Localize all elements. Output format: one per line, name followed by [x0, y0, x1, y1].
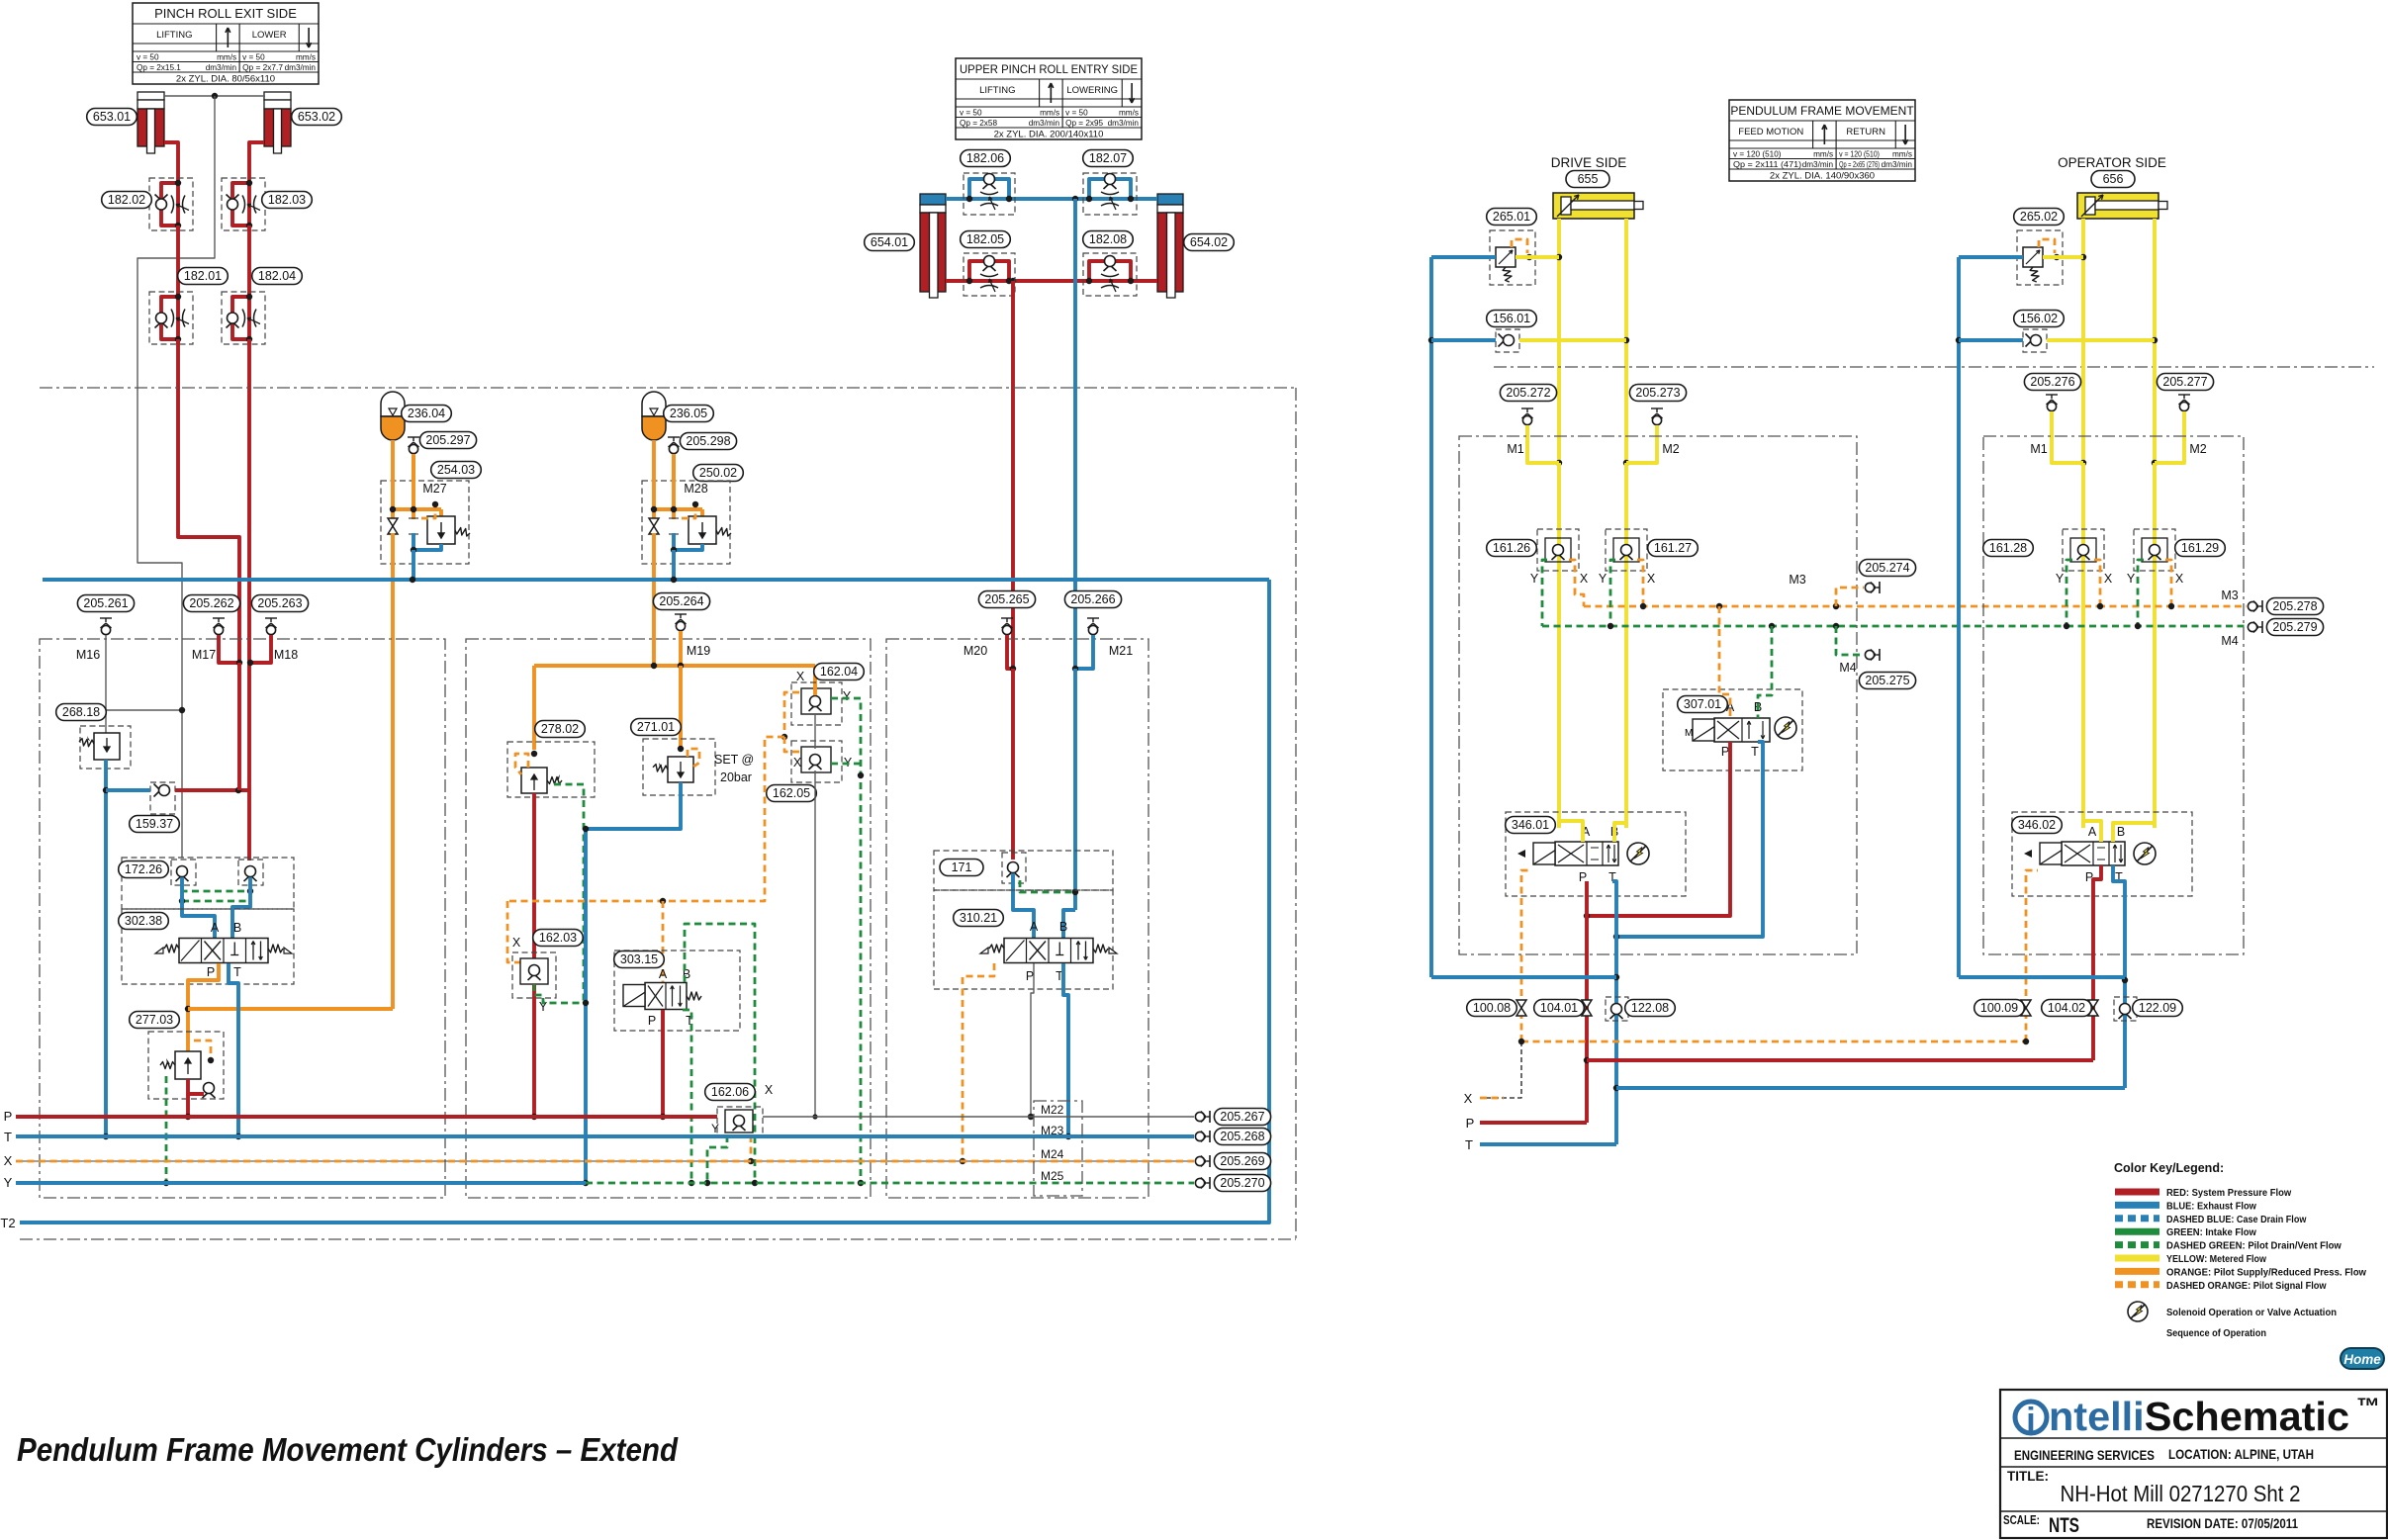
label 159.37: [130, 816, 180, 833]
wire yellow drive left port: [1557, 219, 1561, 463]
test point 205.262: [213, 618, 225, 635]
wire green B 303.15: [685, 924, 755, 1183]
wire yellow drive right port 2: [1624, 340, 1628, 463]
label 162.06: [705, 1084, 756, 1101]
wire yellow B 346.01: [1614, 823, 1626, 842]
svg-text:v = 50: v = 50: [137, 52, 159, 61]
wire red M17 test to line: [219, 635, 239, 663]
test point 205.273: [1626, 408, 1663, 463]
svg-text:dm3/min: dm3/min: [1802, 160, 1834, 169]
label 205.273: [1629, 385, 1686, 402]
shutoff 104.02: [2088, 1000, 2098, 1016]
wire yellow drive right port: [1624, 219, 1628, 340]
table PENDULUM FRAME MOVEMENT: [1729, 100, 1915, 182]
svg-text:P: P: [207, 965, 215, 979]
wire thin gray from junction down-left: [138, 96, 215, 858]
svg-text:205.270: 205.270: [1220, 1176, 1264, 1190]
wire blue into 265.02: [1959, 255, 2023, 259]
svg-text:LIFTING: LIFTING: [979, 85, 1015, 96]
wire yellow op right port: [2153, 219, 2157, 463]
wire orange pilot X chain: [507, 692, 799, 982]
valve 182.03 flow control: [222, 178, 265, 230]
label 205.264: [653, 593, 709, 610]
wire green Y collector drive: [1542, 560, 2067, 629]
wire green pilot Y 162.04/05: [831, 698, 864, 1186]
label 162.03: [533, 930, 584, 947]
svg-text:205.276: 205.276: [2030, 375, 2074, 389]
svg-text:303.15: 303.15: [620, 952, 658, 966]
svg-text:M4: M4: [1839, 661, 1856, 675]
label 271.01: [631, 719, 682, 736]
wire yellow out 265.02: [2043, 255, 2083, 259]
shutoff 100.08: [1516, 1000, 1526, 1016]
wire orange M27 accumulator line down: [391, 564, 395, 1009]
manifold block M28: [642, 440, 731, 580]
wire orange P 302.38: [188, 963, 219, 1051]
svg-text:YELLOW: Metered Flow: YELLOW: Metered Flow: [2166, 1253, 2267, 1265]
label 104.01: [1534, 1000, 1585, 1017]
label 310.21: [954, 910, 1004, 927]
svg-text:RED: System Pressure Flow: RED: System Pressure Flow: [2166, 1187, 2292, 1199]
svg-text:205.267: 205.267: [1220, 1110, 1264, 1124]
wire yellow B 346.02: [2113, 823, 2155, 842]
svg-text:20bar: 20bar: [720, 770, 752, 784]
wire gray M22 line: [763, 1116, 1194, 1118]
label 161.29: [2175, 540, 2226, 557]
test point 205.276: [2046, 395, 2083, 463]
svg-text:B: B: [2117, 825, 2125, 839]
wire red P 303.15: [661, 1010, 665, 1117]
svg-text:v = 50: v = 50: [960, 108, 982, 117]
label 182.04: [252, 268, 303, 285]
label 307.01: [1678, 696, 1728, 713]
valve 161.29 pilot check: [2134, 529, 2175, 571]
test point 205.270: [1195, 1177, 1210, 1189]
svg-text:268.18: 268.18: [62, 705, 100, 719]
label 161.27: [1648, 540, 1699, 557]
wire yellow A 346.01: [1559, 821, 1583, 842]
svg-text:UPPER PINCH ROLL ENTRY SIDE: UPPER PINCH ROLL ENTRY SIDE: [960, 62, 1138, 76]
label 303.15: [614, 951, 665, 968]
svg-text:A: A: [659, 967, 668, 981]
wire red left branch into manifold: [237, 663, 241, 790]
valve 162.05 pilot check: [791, 741, 842, 782]
cylinder 653.02: [264, 92, 291, 153]
svg-text:205.298: 205.298: [686, 434, 730, 448]
wire Y bus blue: [16, 1181, 586, 1185]
label 182.08: [1083, 231, 1134, 248]
svg-text:mm/s: mm/s: [1813, 149, 1833, 158]
valve 162.04 pilot check: [791, 682, 842, 725]
label 171: [940, 860, 983, 876]
svg-text:M20: M20: [964, 644, 987, 658]
svg-text:FEED MOTION: FEED MOTION: [1738, 127, 1803, 137]
svg-text:M1: M1: [2030, 442, 2047, 456]
test point 205.265: [1001, 618, 1013, 635]
svg-text:P: P: [4, 1109, 13, 1124]
wire yellow drive A down: [1557, 463, 1561, 828]
svg-text:A: A: [2088, 825, 2097, 839]
svg-text:ENGINEERING SERVICES: ENGINEERING SERVICES: [2014, 1447, 2155, 1463]
svg-text:v = 120 (510): v = 120 (510): [1839, 149, 1880, 158]
svg-text:172.26: 172.26: [125, 862, 162, 876]
svg-text:M25: M25: [1041, 1169, 1064, 1183]
svg-text:X: X: [512, 936, 521, 950]
valve 265.01 reducing: [1490, 230, 1535, 285]
svg-text:M3: M3: [2221, 589, 2238, 602]
wire gray jog 268.18: [106, 709, 182, 711]
svg-text:NH-Hot Mill 0271270 Sht 2: NH-Hot Mill 0271270 Sht 2: [2061, 1481, 2301, 1506]
svg-text:A: A: [211, 921, 220, 935]
manifold box drive side: [1459, 436, 1857, 954]
svg-text:v = 120 (510): v = 120 (510): [1733, 149, 1782, 158]
label 656: [2091, 171, 2135, 188]
svg-text:X: X: [765, 1083, 774, 1097]
svg-text:mm/s: mm/s: [1119, 108, 1139, 117]
wire blue top line 654: [946, 197, 1157, 201]
svg-text:205.273: 205.273: [1635, 386, 1680, 400]
svg-text:100.09: 100.09: [1980, 1001, 2018, 1015]
wire green 278.02 drain: [554, 784, 584, 1003]
wire blue A side 302.38: [182, 877, 215, 938]
wire blue 271.01 out: [586, 782, 681, 1183]
svg-text:161.28: 161.28: [1989, 541, 2027, 555]
shutoff 100.09: [2021, 1000, 2031, 1016]
svg-text:656: 656: [2103, 172, 2124, 186]
wire blue 654 down to M21: [1073, 199, 1077, 669]
wire blue long drive to operator: [1616, 1086, 2125, 1090]
wire orange X stub: [1480, 1097, 1504, 1100]
label 205.278: [2266, 598, 2323, 615]
svg-text:M3: M3: [1789, 573, 1805, 587]
wire blue 171 out: [1013, 873, 1034, 938]
valve 161.28 pilot check: [2063, 529, 2104, 571]
svg-text:307.01: 307.01: [1684, 697, 1721, 711]
valve 346.02 proportional: [2012, 812, 2192, 896]
svg-text:LOWER: LOWER: [252, 30, 287, 41]
wire red between valve rows left: [176, 226, 180, 297]
svg-text:mm/s: mm/s: [1892, 149, 1912, 158]
manifold box right-mid (M20-M21): [886, 639, 1148, 1198]
label 205.279: [2266, 619, 2323, 636]
svg-text:654.01: 654.01: [871, 235, 908, 249]
test point 205.263: [265, 618, 277, 635]
svg-text:SCALE:: SCALE:: [2003, 1513, 2040, 1527]
svg-text:302.38: 302.38: [125, 914, 162, 928]
wire blue M21 down: [1073, 669, 1077, 910]
svg-text:™: ™: [2356, 1394, 2380, 1420]
test point 205.268: [1195, 1131, 1210, 1142]
label 250.02: [693, 465, 744, 482]
legend solenoid symbol: [2128, 1302, 2337, 1321]
wire red 654 down to M20: [1011, 281, 1015, 669]
wire blue T 346.01: [1612, 881, 1616, 1144]
svg-text:ntelliSchematic: ntelliSchematic: [2049, 1394, 2349, 1439]
wire orange to M27 line: [188, 1007, 393, 1011]
svg-text:NTS: NTS: [2049, 1514, 2079, 1537]
wire green 277.03 drain: [165, 1076, 168, 1183]
wire yellow drive B down: [1624, 463, 1628, 828]
wire blue B side 302.38: [232, 877, 250, 938]
svg-text:TITLE:: TITLE:: [2007, 1469, 2049, 1484]
svg-text:2x ZYL. DIA. 200/140x110: 2x ZYL. DIA. 200/140x110: [994, 130, 1104, 140]
label 182.07: [1083, 150, 1134, 167]
svg-text:T: T: [233, 965, 241, 979]
legend color key: [2114, 1161, 2367, 1292]
svg-text:T: T: [4, 1130, 12, 1144]
valve 271.01 relief: [643, 739, 715, 795]
wire orange M28 line down to M19: [652, 564, 656, 666]
svg-text:161.29: 161.29: [2181, 541, 2219, 555]
wire green T 303.15: [683, 1010, 691, 1183]
wire orange to 162.04: [813, 666, 817, 686]
svg-text:M21: M21: [1109, 644, 1133, 658]
test point 205.269: [1195, 1155, 1210, 1167]
wire red cylinder 653.01 to valves: [164, 142, 178, 180]
svg-text:LOWERING: LOWERING: [1066, 85, 1118, 96]
label 122.08: [1625, 1000, 1676, 1017]
label 265.01: [1487, 209, 1537, 226]
table UPPER PINCH ROLL ENTRY SIDE: [956, 58, 1142, 140]
label 254.03: [431, 462, 482, 479]
valve 161.26 pilot check: [1537, 529, 1579, 571]
outer manifold boundary left+middle: [20, 388, 1296, 1239]
wire orange pilot signal X long: [1521, 1041, 2026, 1043]
label 277.03: [130, 1012, 180, 1029]
svg-text:M22: M22: [1041, 1103, 1064, 1117]
svg-text:159.37: 159.37: [136, 817, 173, 831]
wire green Y 162.03: [534, 984, 586, 1003]
svg-text:LIFTING: LIFTING: [156, 30, 192, 41]
svg-text:mm/s: mm/s: [217, 52, 236, 61]
svg-text:Y: Y: [2127, 572, 2136, 586]
check valve 159.37: [106, 782, 249, 814]
wire yellow op left port: [2081, 219, 2085, 463]
svg-text:Y: Y: [2056, 572, 2065, 586]
valve 162.03 pilot check: [512, 952, 556, 998]
svg-text:Y: Y: [1599, 572, 1607, 586]
svg-text:M18: M18: [274, 648, 298, 662]
label 172.26: [119, 861, 169, 878]
svg-text:653.02: 653.02: [298, 110, 335, 124]
label 161.28: [1983, 540, 2034, 557]
valve 346.01 proportional: [1506, 812, 1686, 896]
wire red P stub: [1480, 1121, 1587, 1125]
wire orange M19 header: [534, 664, 815, 668]
test valve 122.08: [1606, 997, 1628, 1021]
test point 205.298: [668, 437, 680, 481]
valve 182.04 flow control: [222, 292, 265, 344]
manifold box middle (M19): [466, 639, 871, 1198]
label 182.05: [961, 231, 1011, 248]
wire blue drive left down: [1429, 257, 1433, 977]
svg-text:Y: Y: [843, 689, 852, 703]
label 100.08: [1467, 1000, 1517, 1017]
svg-text:BLUE: Exhaust Flow: BLUE: Exhaust Flow: [2166, 1200, 2257, 1212]
wire yellow out 265.01: [1515, 255, 1559, 259]
svg-text:DASHED BLUE: Case Drain Flow: DASHED BLUE: Case Drain Flow: [2166, 1214, 2307, 1225]
svg-text:DRIVE SIDE: DRIVE SIDE: [1551, 155, 1627, 170]
label 162.05: [767, 785, 817, 802]
title block: [2000, 1390, 2387, 1538]
svg-text:M28: M28: [684, 482, 707, 496]
svg-text:P: P: [648, 1014, 656, 1028]
wire red P 307.01: [1587, 742, 1730, 916]
svg-text:M4: M4: [2221, 634, 2238, 648]
wire gray M16 down: [105, 635, 107, 733]
wire green Y collector op: [2064, 560, 2247, 629]
svg-text:M2: M2: [2189, 442, 2206, 456]
svg-text:310.21: 310.21: [960, 911, 997, 925]
label 278.02: [535, 721, 586, 738]
test point 205.266: [1087, 618, 1099, 635]
wire red M20 down: [1011, 669, 1015, 860]
valve 277.03 reducing: [148, 1032, 224, 1099]
check valve 171: [934, 851, 1113, 890]
svg-text:156.02: 156.02: [2020, 312, 2058, 325]
test point 205.297: [408, 437, 419, 481]
svg-text:Qp = 2x58: Qp = 2x58: [960, 119, 997, 128]
svg-text:277.03: 277.03: [136, 1013, 173, 1027]
wire T2 blue: [20, 580, 1269, 1223]
svg-text:Y: Y: [1530, 572, 1539, 586]
wire green B 307.01: [1758, 626, 1772, 718]
svg-text:Solenoid Operation or Valve Ac: Solenoid Operation or Valve Actuation: [2166, 1307, 2337, 1318]
svg-text:162.06: 162.06: [711, 1085, 749, 1099]
wire orange X collector op: [2094, 560, 2247, 609]
wire blue T 302.38: [229, 963, 238, 1136]
valve 182.01 flow control: [149, 292, 193, 344]
svg-text:X: X: [2104, 572, 2113, 586]
svg-text:205.262: 205.262: [189, 596, 233, 610]
svg-text:B: B: [233, 921, 241, 935]
svg-text:250.02: 250.02: [699, 466, 737, 480]
svg-text:mm/s: mm/s: [296, 52, 316, 61]
wire yellow op A down: [2081, 463, 2085, 828]
svg-text:REVISION DATE: 07/05/2011: REVISION DATE: 07/05/2011: [2147, 1515, 2298, 1531]
wire orange pilot 346.02: [2026, 870, 2038, 1042]
svg-text:162.04: 162.04: [820, 665, 858, 679]
svg-text:104.01: 104.01: [1540, 1001, 1578, 1015]
wire red 277.03 to P bus: [186, 1094, 190, 1117]
svg-text:161.27: 161.27: [1654, 541, 1692, 555]
svg-text:236.04: 236.04: [408, 407, 445, 420]
label 236.04: [402, 406, 452, 422]
label 205.262: [183, 595, 239, 612]
svg-text:dm3/min: dm3/min: [206, 63, 237, 72]
label 156.01: [1487, 311, 1537, 327]
valve 302.38 directional: [122, 909, 294, 984]
svg-text:i: i: [2026, 1402, 2035, 1439]
svg-text:162.03: 162.03: [539, 931, 577, 945]
check valve 156.01: [1431, 329, 1626, 352]
svg-text:205.277: 205.277: [2162, 375, 2207, 389]
manifold block M27: [381, 440, 470, 580]
shutoff 104.01: [1582, 1000, 1592, 1016]
svg-text:205.269: 205.269: [1220, 1154, 1264, 1168]
test point 205.261: [100, 618, 112, 635]
label 205.268: [1214, 1129, 1270, 1145]
test point 205.277: [2155, 395, 2190, 463]
svg-text:X: X: [2175, 572, 2184, 586]
label 205.269: [1214, 1153, 1270, 1170]
wire blue main exhaust bus: [43, 578, 1269, 582]
wire blue op left bottom: [1959, 975, 2125, 979]
valve 182.08 flow control: [1083, 253, 1137, 296]
wire X bus orange dashed: [16, 1160, 1194, 1162]
svg-text:Qp = 2x7.7: Qp = 2x7.7: [242, 63, 283, 72]
label 156.02: [2014, 311, 2065, 327]
cylinder 655 drive side: [1553, 193, 1643, 219]
label 205.267: [1214, 1109, 1270, 1126]
manifold box operator side: [1983, 436, 2244, 954]
wire T bus blue: [16, 1134, 1194, 1138]
svg-text:T2: T2: [0, 1216, 15, 1230]
svg-text:M27: M27: [422, 482, 446, 496]
svg-text:Qp = 2x95: Qp = 2x95: [1065, 119, 1103, 128]
valve 162.06 pilot check: [717, 1107, 763, 1135]
wire red 653.02 to valves: [249, 142, 264, 180]
svg-text:OPERATOR SIDE: OPERATOR SIDE: [2058, 155, 2166, 170]
label 205.270: [1214, 1175, 1270, 1192]
svg-text:T: T: [1465, 1137, 1473, 1152]
wire red P 346.01: [1585, 881, 1589, 1123]
svg-text:182.08: 182.08: [1089, 232, 1127, 246]
label 302.38: [119, 913, 169, 930]
svg-text:182.06: 182.06: [966, 151, 1004, 165]
svg-text:mm/s: mm/s: [1040, 108, 1059, 117]
svg-text:171: 171: [952, 861, 972, 874]
label 205.275: [1859, 673, 1915, 689]
label 182.06: [961, 150, 1011, 167]
svg-text:100.08: 100.08: [1473, 1001, 1511, 1015]
valve 182.07 flow control: [1083, 173, 1137, 215]
svg-text:205.263: 205.263: [257, 596, 302, 610]
svg-text:dm3/min: dm3/min: [1882, 160, 1913, 169]
accumulator 236.05: [642, 392, 666, 440]
label 205.274: [1859, 560, 1915, 577]
svg-text:GREEN: Intake Flow: GREEN: Intake Flow: [2166, 1226, 2257, 1238]
wire red bottom line 654: [946, 279, 1157, 283]
check valve 156.02: [1959, 329, 2155, 352]
label 182.03: [262, 192, 313, 209]
svg-text:346.01: 346.01: [1512, 818, 1549, 832]
svg-text:205.278: 205.278: [2272, 599, 2317, 613]
label 653.02: [292, 109, 342, 126]
svg-text:DASHED GREEN: Pilot Drain/Vent: DASHED GREEN: Pilot Drain/Vent Flow: [2166, 1240, 2342, 1252]
label 100.09: [1975, 1000, 2025, 1017]
svg-text:2x ZYL. DIA. 140/90x360: 2x ZYL. DIA. 140/90x360: [1770, 171, 1875, 182]
wire blue B 310.21: [1063, 910, 1075, 938]
svg-text:182.05: 182.05: [966, 232, 1004, 246]
wire blue T stub: [1480, 1142, 1616, 1146]
wire blue 268.18 down to T: [104, 760, 108, 1136]
wire P bus red: [16, 1115, 717, 1119]
label 161.26: [1487, 540, 1537, 557]
wire red 653.02 branch down to manifold: [247, 339, 251, 861]
svg-text:SET @: SET @: [714, 753, 754, 767]
wire red P 346.02: [2093, 865, 2101, 1060]
wire rod-end link thin: [164, 95, 265, 97]
svg-text:205.268: 205.268: [1220, 1130, 1264, 1143]
svg-text:254.03: 254.03: [437, 463, 475, 477]
test point 205.267: [1195, 1111, 1210, 1123]
wire red 278.02 down: [532, 793, 536, 1117]
wire black dashed X stub: [1480, 1042, 1521, 1098]
svg-text:dm3/min: dm3/min: [1029, 119, 1060, 128]
svg-text:Sequence of Operation: Sequence of Operation: [2166, 1327, 2266, 1339]
logo intelliSchematic: [2015, 1394, 2380, 1439]
